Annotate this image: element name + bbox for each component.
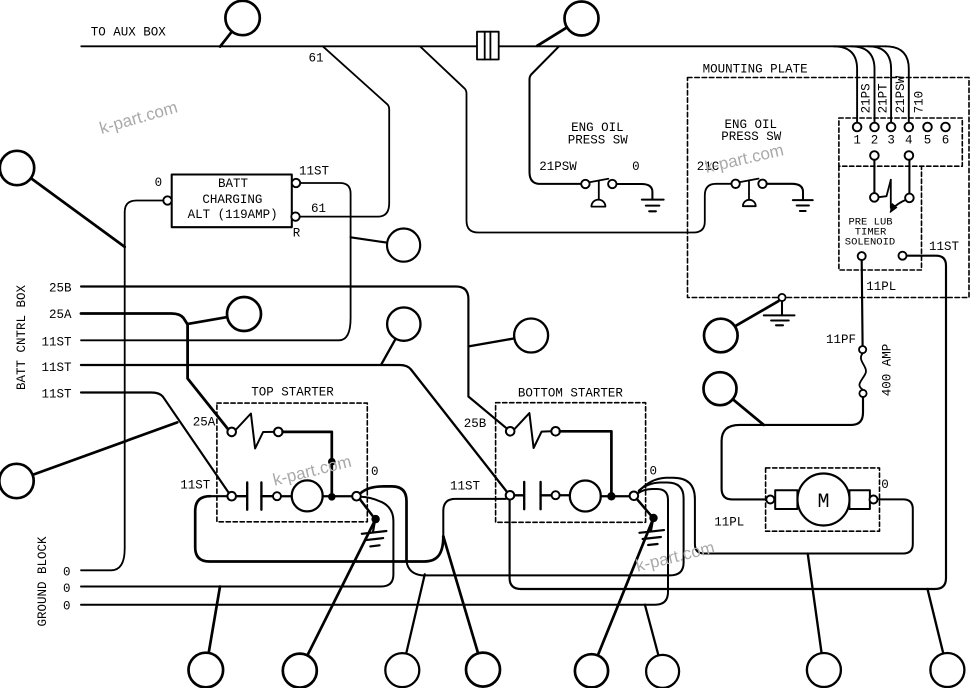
balloon callout B9 [704, 372, 764, 425]
svg-text:11ST: 11ST [450, 479, 481, 493]
bottom starter contactor terminal 11ST [506, 491, 515, 500]
svg-text:SOLENOID: SOLENOID [845, 236, 895, 248]
svg-text:3: 3 [887, 134, 895, 148]
svg-text:BOTTOM STARTER: BOTTOM STARTER [518, 387, 624, 401]
component label PRE LUB TIMER SOLENOID [845, 217, 895, 249]
oil pressure switch 2 actuator [743, 181, 756, 206]
diagonal from bottom starter 0 to ground junction [637, 499, 651, 515]
wire output 0 upper curve to loop vertical [360, 486, 406, 561]
oil pressure switch 1 blade [590, 179, 609, 183]
terminal 4 [905, 123, 914, 132]
wire bottom starter switch to contactor coil [560, 431, 612, 492]
balloon callout B7 [0, 422, 177, 498]
junction dot (top starter lower) [328, 493, 336, 501]
svg-text:710: 710 [912, 91, 926, 114]
svg-text:R: R [293, 227, 301, 241]
wire junction to output terminal [616, 495, 630, 497]
wire 21PSW drop from aux bus to oil pressure switch 1 [530, 46, 582, 184]
oil pressure switch 1 terminal 21PSW [581, 180, 589, 188]
mounting plate enclosure (dashed) [688, 78, 970, 298]
motor terminal left (11PL) [766, 496, 774, 504]
svg-text:25A: 25A [49, 308, 72, 322]
svg-text:11ST: 11ST [41, 388, 72, 402]
wire aux bus curve 3 to terminal 3 [868, 46, 891, 122]
svg-text:61: 61 [308, 52, 323, 66]
svg-text:BATT CNTRL BOX: BATT CNTRL BOX [15, 284, 29, 390]
wire solenoid pin 2 stem [873, 160, 875, 193]
svg-text:M: M [817, 491, 829, 514]
top starter enclosure (dashed) [217, 403, 367, 522]
svg-text:0: 0 [371, 465, 379, 479]
top starter coil input terminal [273, 492, 281, 500]
svg-text:400 AMP: 400 AMP [881, 344, 895, 397]
oil pressure switch 2 terminal 21C [731, 180, 739, 188]
bottom starter solenoid coil [560, 481, 608, 512]
svg-text:GROUND BLOCK: GROUND BLOCK [36, 536, 50, 627]
balloon callout B18 [469, 319, 548, 353]
svg-text:0: 0 [63, 565, 71, 579]
top starter switch terminal right [274, 428, 283, 437]
junction dot (top starter upper) [328, 458, 336, 466]
wire 11ST row 3 to top starter contactor [81, 393, 229, 493]
top starter contactor plates [236, 482, 273, 509]
svg-text:11ST: 11ST [180, 479, 211, 493]
svg-text:1: 1 [853, 134, 861, 148]
junction dot (bottom starter) [607, 492, 615, 500]
svg-text:0: 0 [63, 600, 71, 614]
wire 11ST stub (top starter) [210, 495, 227, 497]
wire link top starter 0 to bottom starter 11ST side [407, 483, 684, 576]
svg-text:TO AUX BOX: TO AUX BOX [91, 26, 167, 40]
wire loop from 11ST stub around to output 0 upper [195, 496, 443, 561]
wire from fuse to starter motor left brush [722, 397, 863, 499]
wire ground block row 3 to bottom starter output 0 [81, 489, 668, 605]
balloon callout B13 [443, 536, 500, 686]
connector J1 on aux bus [477, 32, 499, 60]
starter motor M [775, 474, 870, 526]
terminal strip TB1 (dashed) [839, 118, 962, 166]
wire 11ST row 2 to bottom starter contactor [81, 365, 507, 492]
terminal 2 [870, 123, 879, 132]
wire 0 from alternator down to ground block [81, 201, 163, 571]
svg-text:25B: 25B [49, 282, 72, 296]
mounting plate ground terminal [778, 294, 785, 301]
solenoid pin under terminal 4 [905, 151, 914, 160]
balloon callout B3 [0, 151, 125, 247]
wire aux bus curve 4 to terminal 4 [885, 46, 909, 122]
wire 11ST from pre lub solenoid down right side [510, 256, 946, 589]
pre lub timer solenoid enclosure (dashed) [839, 166, 922, 270]
svg-text:4: 4 [905, 134, 913, 148]
fuse F1 top terminal [859, 346, 866, 353]
solenoid pin under terminal 2 [870, 151, 879, 160]
top starter solenoid coil [281, 480, 352, 511]
terminal 3 [887, 123, 896, 132]
terminal 5 [923, 123, 932, 132]
ground (oil pressure switch 2) [793, 200, 813, 211]
junction dot (top starter ground) [371, 515, 379, 523]
svg-text:CHARGING: CHARGING [202, 193, 262, 207]
svg-text:11ST: 11ST [41, 336, 72, 350]
balloon callout B4 [189, 297, 262, 331]
alternator terminal 11ST (right top) [292, 179, 300, 187]
wire aux bus curve 1 to terminal 1 [834, 46, 858, 122]
svg-text:0: 0 [650, 465, 658, 479]
svg-text:21PS: 21PS [859, 83, 873, 113]
alternator terminal 61/R (right bottom) [291, 212, 299, 220]
svg-text:0: 0 [155, 176, 163, 190]
bottom starter enclosure (dashed) [496, 403, 646, 523]
wire 11ST from alternator down to 11ST row 1 [81, 183, 351, 340]
wire switch 1 to ground [617, 184, 653, 199]
pre lub solenoid output terminal 11ST [899, 252, 907, 260]
svg-text:ALT (119AMP): ALT (119AMP) [188, 208, 278, 222]
balloon callout B16 [807, 554, 841, 688]
ground (top starter) [362, 523, 387, 546]
svg-text:21PSW: 21PSW [539, 160, 577, 174]
svg-text:11PL: 11PL [866, 280, 896, 294]
top starter output terminal 0 [352, 492, 361, 501]
ground (mounting plate) [764, 301, 795, 325]
svg-text:BATT: BATT [218, 177, 249, 191]
oil pressure switch 2 blade [740, 179, 759, 183]
wire ground block row 2 to top starter output 0 [81, 497, 393, 587]
oil pressure switch 1 terminal 0 [608, 180, 616, 188]
balloon callout B10 [189, 587, 224, 688]
balloon callout B2 [537, 2, 598, 46]
oil pressure switch 2 terminal right [758, 180, 766, 188]
terminal 1 [853, 123, 862, 132]
svg-text:5: 5 [924, 134, 932, 148]
svg-text:0: 0 [881, 478, 889, 492]
svg-text:21PSW: 21PSW [894, 75, 908, 113]
balloon callout B11 [283, 519, 376, 688]
wire TO AUX BOX main bus [81, 45, 885, 47]
diagonal from top starter 0 to ground junction [360, 499, 373, 516]
svg-text:21PT: 21PT [877, 83, 891, 114]
ground (oil pressure switch 1) [642, 200, 664, 212]
fuse F1 bottom terminal [859, 390, 866, 397]
svg-text:TOP STARTER: TOP STARTER [251, 386, 334, 400]
component label ENG OIL PRESS SW (switch 1) [568, 121, 629, 148]
svg-text:0: 0 [632, 160, 640, 174]
top starter switch blade [236, 414, 274, 449]
svg-text:11PF: 11PF [826, 333, 856, 347]
top starter switch terminal left [227, 428, 236, 437]
terminal 6 [941, 123, 950, 132]
solenoid contact terminal left [870, 193, 879, 202]
wire from aux bus down and across to oil pressure switch 2 (21C) [420, 46, 731, 232]
svg-text:25B: 25B [464, 417, 487, 431]
wire switch 2 to ground [767, 184, 803, 200]
pre lub solenoid output terminal 11PL [858, 252, 866, 260]
bottom starter output terminal 0 [630, 492, 639, 501]
wire 11PL from solenoid to fuse [861, 260, 864, 346]
bottom starter switch terminal right [551, 427, 560, 436]
balloon callout B12 [385, 574, 425, 687]
motor terminal right (0) [870, 496, 878, 504]
wire motor right brush loop to bottom starter 0 [639, 478, 913, 554]
bottom starter coil input terminal [552, 491, 560, 499]
wire 25B from batt cntrl box to bottom starter switch [81, 287, 507, 429]
wire 25A from batt cntrl box to top starter switch [81, 314, 228, 429]
svg-text:11ST: 11ST [929, 240, 960, 254]
ground (bottom starter) [639, 522, 664, 545]
svg-text:0: 0 [63, 582, 71, 596]
balloon callout B14 [575, 518, 654, 687]
oil pressure switch 1 actuator [591, 181, 605, 207]
svg-text:11ST: 11ST [299, 165, 330, 179]
balloon callout B6 [381, 307, 420, 364]
svg-text:6: 6 [942, 134, 950, 148]
balloon callout B17 [928, 589, 965, 687]
balloon callout B1 [220, 1, 260, 47]
bottom starter switch terminal left [506, 427, 515, 436]
bottom starter switch blade [515, 413, 552, 448]
balloon callout B8 [704, 301, 778, 352]
svg-text:25A: 25A [193, 416, 216, 430]
starter motor enclosure (dashed) [766, 468, 880, 531]
wire 61 from aux bus to alternator [300, 46, 390, 216]
fuse F1 element [859, 353, 866, 389]
wire aux bus curve 2 to terminal 2 [851, 46, 875, 122]
balloon callout B5 [351, 229, 421, 262]
bottom starter contactor plates [514, 482, 551, 509]
wire top starter switch to contactor coil [283, 432, 332, 493]
junction dot (bottom starter ground) [649, 514, 657, 522]
svg-text:11PL: 11PL [714, 516, 744, 530]
component label ENG OIL PRESS SW (switch 2) [721, 118, 782, 144]
alternator BATT CHARGING ALT (119AMP) [172, 175, 292, 228]
wire stub vertical at 443 to bottom starter 11ST [443, 499, 506, 536]
alternator terminal 0 (left) [163, 196, 171, 204]
top starter contactor terminal 11ST [227, 492, 236, 501]
svg-text:61: 61 [311, 202, 326, 216]
solenoid contact terminal right [905, 194, 914, 203]
svg-text:11ST: 11ST [41, 361, 72, 375]
balloon callout B15 [645, 605, 679, 688]
wire solenoid pin 4 stem [908, 160, 910, 194]
svg-text:PRESS SW: PRESS SW [568, 133, 629, 147]
svg-text:2: 2 [871, 134, 879, 148]
svg-text:MOUNTING PLATE: MOUNTING PLATE [703, 62, 808, 76]
solenoid timer contact blade with arrow [879, 180, 906, 213]
